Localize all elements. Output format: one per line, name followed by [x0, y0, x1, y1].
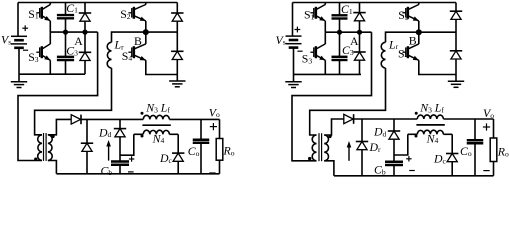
inductor Lr [107, 42, 111, 68]
wire S2 collector [145, 3, 147, 5]
node D1-A right [357, 30, 362, 35]
diode Dc [172, 153, 184, 161]
wire Cb bottom right [393, 165, 395, 176]
svg-text:A: A [350, 34, 359, 48]
diode freewheel [81, 143, 93, 151]
wire C1 bottom [65, 18, 67, 32]
transistor S2 right [402, 5, 418, 21]
label N4 [152, 131, 165, 145]
wire Lr to primary top right [310, 68, 386, 135]
label Dc right [433, 152, 447, 166]
inductor N3-N4 core bar right [416, 124, 444, 126]
capacitor C3 right [332, 57, 348, 60]
diode D1 [79, 13, 91, 21]
label Vo [209, 105, 220, 119]
diode D1 right [353, 13, 365, 21]
transistor S1 right [310, 5, 325, 21]
wire right diode branch middle [176, 22, 178, 52]
label N3 [145, 101, 158, 115]
diode D3 right [353, 52, 365, 60]
label Dd right [373, 125, 387, 139]
wire left rail right circuit [292, 3, 294, 37]
label Lf right [434, 101, 445, 115]
wire S1 emitter right [324, 21, 326, 32]
label Dc [159, 151, 173, 165]
polarity dot N3 [141, 112, 144, 115]
wire N4 left [120, 134, 134, 155]
wire top rail right circuit [293, 2, 457, 4]
transistor S3 right [310, 44, 325, 60]
wire output bottom rail right [334, 175, 494, 177]
wire C3 top [65, 32, 67, 57]
wire D3 bottom right [359, 61, 361, 75]
diode Dr [356, 142, 368, 150]
wire node A loop [18, 32, 98, 160]
label S2 [120, 7, 131, 21]
capacitor C1 [57, 15, 74, 18]
polarity dot secondary right [328, 135, 331, 138]
wire freewheel diode bottom [86, 152, 88, 174]
wire S3 collector right [324, 32, 326, 44]
wire right diode branch top [176, 3, 178, 14]
transformer T1 secondary [48, 135, 52, 161]
label Vs right [276, 33, 286, 47]
ground battery [11, 74, 27, 87]
label Vo right [483, 106, 494, 120]
label N4 right [426, 131, 439, 145]
capacitor Co right [467, 140, 484, 143]
wire S1 collector [49, 3, 51, 5]
diode Dc right [446, 154, 458, 162]
wire secondary bottom right [324, 161, 334, 176]
resistor Ro [216, 139, 223, 161]
wire bottom rail [19, 73, 85, 75]
resistor Ro right [490, 138, 497, 162]
minus Cb right [409, 170, 415, 172]
wire right diode branch middle right [455, 20, 457, 51]
wire C3 top right [339, 32, 341, 57]
label A [74, 34, 83, 48]
wire S3 emitter [49, 60, 51, 74]
plus Vo right [483, 123, 490, 130]
node C1-A [63, 29, 68, 34]
transistor S2 [128, 5, 145, 21]
inductor N4 winding right [417, 130, 443, 134]
wire S2 emitter right [418, 21, 420, 32]
minus battery Vs [23, 49, 28, 51]
transformer T1 core [44, 133, 47, 161]
transistor S3 [36, 44, 50, 60]
minus Vo right [483, 170, 489, 172]
arrow current Cb [106, 140, 111, 161]
label S1 right [304, 8, 315, 22]
diode series rectifier [71, 115, 81, 125]
wire N4 right stub right [443, 133, 452, 135]
label A right [350, 34, 359, 48]
wire node A [50, 31, 97, 33]
wire D3 bottom [84, 61, 86, 74]
wire N4 left right [394, 134, 408, 155]
wire Cb bottom [119, 165, 121, 174]
inductor N3-N4 core bar [142, 124, 170, 126]
inductor Lr right [381, 42, 385, 68]
svg-text:A: A [74, 34, 83, 48]
transformer T1 primary [38, 135, 42, 161]
inductor N4 winding [143, 130, 169, 134]
inductor N3 Lf winding right [417, 115, 443, 119]
ground right branch [169, 75, 185, 87]
label Co right [460, 144, 472, 158]
wire right diode branch bottom right [455, 59, 457, 74]
plus Cb right [406, 156, 411, 161]
label Ro [223, 144, 235, 158]
wire node B to Lr right [386, 32, 419, 42]
capacitor Cb [111, 162, 129, 165]
label Vs [1, 33, 11, 47]
polarity dot N3 right [415, 112, 418, 115]
wire output top right [443, 118, 493, 120]
label S2 right [398, 8, 409, 22]
wire Lr to primary top [35, 68, 112, 135]
wire S4 emitter [146, 60, 178, 74]
plus Cb [129, 156, 134, 161]
wire S4 collector [145, 32, 147, 44]
wire Dc bottom [177, 162, 179, 174]
capacitor C3 [57, 57, 74, 60]
wire secondary top [48, 119, 71, 134]
minus Vo [209, 172, 215, 174]
wire left rail [17, 3, 19, 37]
wire battery negative right [293, 47, 295, 74]
node B right [416, 29, 422, 35]
label C3 [66, 44, 78, 58]
wire freewheel diode top [86, 119, 88, 143]
wire S4 emitter right [419, 60, 456, 74]
plus battery Vs [22, 25, 28, 31]
label Lr right [388, 37, 399, 51]
wire Dd to Cb right [393, 140, 395, 162]
diode series rectifier right [344, 114, 354, 124]
wire top rail [18, 2, 177, 4]
transistor S1 [36, 5, 50, 21]
diode Dd right [388, 131, 400, 139]
capacitor Co [193, 140, 210, 143]
wire Co bottom [200, 143, 202, 174]
label Dd [98, 125, 112, 139]
wire N4 left stub [134, 133, 144, 135]
label Cb right [374, 163, 386, 177]
wire S4 collector right [418, 32, 420, 44]
wire bottom rail right circuit [294, 73, 362, 75]
wire Dd top right [393, 119, 395, 131]
label Lf [160, 101, 171, 115]
wire rectifier top [81, 118, 143, 120]
transformer T2 core [319, 133, 322, 161]
wire Dr bottom [361, 150, 363, 176]
ground battery right [285, 74, 301, 87]
wire N4 to Dc right [451, 134, 453, 153]
wire N4 right stub [169, 133, 178, 135]
wire Ro top right [493, 119, 495, 138]
wire output top [169, 118, 219, 120]
wire node B right [146, 31, 178, 33]
wire Ro top [219, 119, 221, 138]
diode clamp upper [171, 13, 183, 21]
wire right diode branch bottom [176, 60, 178, 75]
wire node A right [325, 31, 371, 33]
wire node B right segment [419, 31, 456, 33]
diode Dd [114, 129, 126, 137]
polarity dot primary right [308, 157, 311, 160]
label C3 right [342, 43, 354, 57]
wire S2 emitter to node B [145, 21, 147, 32]
wire node B to Lr [112, 32, 146, 42]
plus Vo [210, 123, 217, 130]
wire S3 collector [49, 32, 51, 44]
polarity dot secondary [51, 135, 54, 138]
ground right branch right [448, 75, 464, 88]
label Lr [114, 38, 125, 52]
capacitor Cb right [385, 162, 403, 165]
diode D3 [79, 52, 91, 60]
wire node A loop right [292, 32, 372, 161]
wire C3 bottom [65, 60, 67, 74]
wire C1 bottom right [339, 19, 341, 33]
wire D1 top right [359, 3, 361, 13]
wire Co bottom right [474, 143, 476, 176]
wire N4 to Dc [177, 134, 179, 153]
wire Dr top [361, 119, 363, 142]
wire Dd to Cb [119, 137, 121, 161]
wire rectifier top right [354, 118, 417, 120]
label S4 right [398, 46, 409, 60]
arrow current Dr [347, 141, 352, 161]
wire D1 bottom [84, 22, 86, 32]
capacitor C1 right [332, 15, 348, 18]
wire Dd top [119, 119, 121, 128]
label S1 [28, 7, 39, 21]
wire S1 emitter to node A [49, 21, 51, 32]
label Cb [101, 163, 113, 177]
battery Vs [11, 36, 27, 48]
wire C1 top [65, 3, 67, 16]
polarity dot primary [34, 158, 37, 161]
label S4 [122, 49, 133, 63]
label B right [409, 34, 417, 48]
wire S1 collector right [324, 3, 326, 5]
label B [134, 34, 142, 48]
wire S3 emitter right [324, 60, 326, 74]
wire C3 bottom right [339, 60, 341, 74]
wire S2 collector right [418, 3, 420, 5]
diode clamp lower right [450, 51, 462, 59]
wire output bottom rail [56, 173, 219, 175]
wire D3 top [84, 32, 86, 52]
plus battery Vs right [295, 27, 301, 33]
wire Dc bottom right [451, 162, 453, 176]
wire right diode branch top right [455, 3, 457, 12]
node B [143, 29, 149, 35]
wire Ro bottom [219, 160, 221, 174]
diode clamp lower [171, 51, 183, 59]
polarity dot N4 [141, 135, 144, 138]
transistor S4 right [402, 44, 418, 60]
wire battery negative [18, 48, 20, 75]
node D1-A [82, 29, 87, 34]
polarity dot N4 right [415, 135, 418, 138]
diode clamp upper right [450, 11, 462, 19]
label Dr [369, 140, 382, 154]
wire D1 bottom right [359, 21, 361, 32]
wire Ro bottom right [493, 162, 495, 176]
wire Co top [200, 119, 202, 139]
label Co [188, 144, 200, 158]
label S3 [28, 50, 39, 64]
label C1 [66, 1, 78, 15]
label Ro right [497, 145, 509, 159]
inductor N3 Lf winding [143, 115, 169, 119]
wire D3 top right [359, 32, 361, 52]
transistor S4 [128, 44, 145, 60]
wire Co top right [474, 119, 476, 140]
transformer T2 primary [312, 135, 316, 161]
minus battery Vs right [297, 50, 302, 52]
wire D1 top [84, 3, 86, 14]
wire secondary bottom [48, 161, 57, 174]
label C1 right [341, 2, 353, 16]
wire N4 left stub right [408, 133, 418, 135]
battery Vs right [286, 36, 302, 48]
transformer T2 secondary [324, 135, 328, 161]
wire secondary top right [324, 119, 343, 135]
label N3 right [419, 101, 432, 115]
minus Cb [128, 171, 134, 173]
label S3 right [302, 52, 313, 66]
wire C1 top right [339, 3, 341, 16]
node C1-A right [337, 30, 342, 35]
